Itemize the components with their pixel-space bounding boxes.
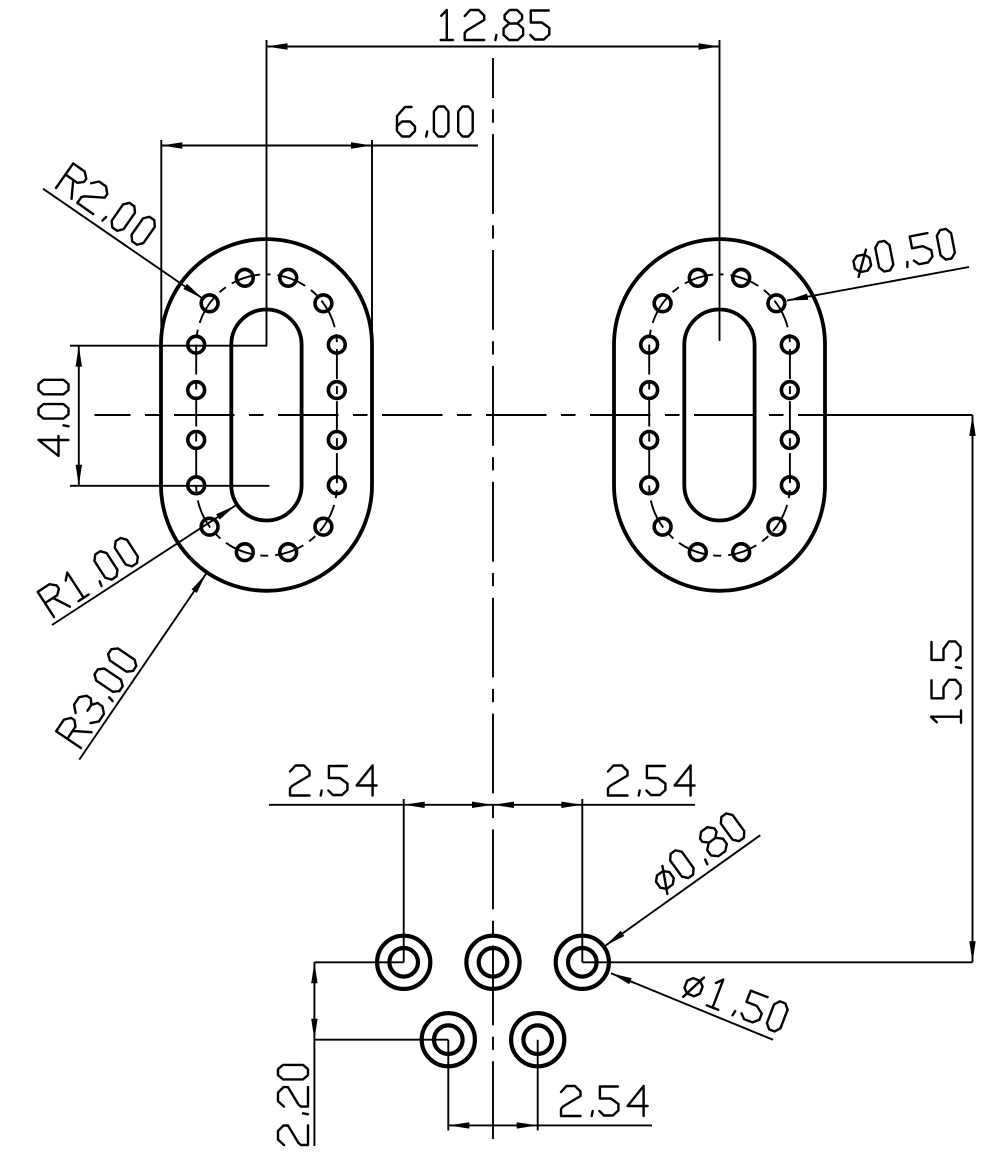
dim 12.85 extension line right (719, 40, 721, 341)
dim 15.5 arrow up (969, 415, 975, 436)
dim text 2.54 top-right (608, 766, 695, 796)
dim 2.54 bottom arrow left (448, 1122, 469, 1128)
label d0.50 (851, 228, 956, 277)
pad A3 outer ring d1.50 (556, 936, 609, 989)
hole right #14 (d0.50) (654, 518, 671, 535)
hole left #8 (d0.50) (328, 477, 345, 494)
pad B1 inner hole d0.80 (434, 1025, 463, 1054)
hole left #9 (d0.50) (236, 269, 253, 286)
dim 6.00 arrow left (161, 142, 182, 148)
pad A2 outer ring d1.50 (466, 936, 519, 989)
hole right #1 (d0.50) (641, 336, 658, 353)
leader R1.00 (52, 506, 236, 626)
dim 6.00 extension line left (160, 140, 162, 344)
hole right #11 (d0.50) (733, 269, 750, 286)
dim 12.85 dimension line (267, 46, 720, 48)
hole right #16 (d0.50) (768, 518, 785, 535)
hole right #2 (d0.50) (641, 382, 658, 399)
dim 15.5 dimension line (972, 415, 974, 962)
dim 2.54 bottom extension line right (537, 1040, 539, 1131)
leader d0.50 arrowhead (786, 294, 808, 304)
horizontal centerline through both stadiums (95, 414, 837, 416)
hole left #6 (d0.50) (328, 382, 345, 399)
pad A2 inner hole d0.80 (479, 948, 508, 977)
label R1.00 (38, 536, 141, 617)
leader R3.00 arrowhead (192, 572, 209, 593)
dim 4.00 extension line top (70, 345, 267, 347)
hole left #15 (d0.50) (315, 295, 332, 312)
dim 15.5 arrow down (969, 941, 975, 962)
bolt path right (R2.00 dashed obround) (649, 274, 790, 555)
hole right #8 (d0.50) (781, 477, 798, 494)
label R2.00 (56, 163, 158, 247)
dim 2.54 bottom arrow right (517, 1122, 538, 1128)
leader d0.50 (787, 267, 969, 301)
dim 2.54 top dimension line (269, 804, 695, 806)
hole right #12 (d0.50) (733, 544, 750, 561)
inner slot right (R1.00 obround 2x6) (684, 310, 754, 521)
pad A1 inner hole d0.80 (389, 948, 418, 977)
dim 2.54 bottom dimension line (448, 1124, 652, 1126)
dim 12.85 extension line left (266, 40, 268, 345)
hole right #13 (d0.50) (654, 295, 671, 312)
dim 2.20 arrow up (311, 962, 317, 983)
hole left #16 (d0.50) (315, 518, 332, 535)
hole left #12 (d0.50) (280, 544, 297, 561)
vertical centerline (492, 58, 494, 1139)
dim 6.00 arrow right (351, 142, 372, 148)
leader R1.00 arrowhead (216, 503, 237, 520)
hole right #7 (d0.50) (781, 432, 798, 449)
dim text 2.54 top-left (290, 766, 377, 796)
hole left #5 (d0.50) (328, 336, 345, 353)
pad B2 inner hole d0.80 (523, 1025, 552, 1054)
dim 2.54 bottom extension line left (447, 1040, 449, 1131)
leader d1.50 arrowhead (610, 970, 632, 984)
hole left #14 (d0.50) (201, 518, 218, 535)
centerline extension to 15.5 dimension (835, 414, 973, 416)
leader d1.50 (611, 973, 773, 1040)
hole left #3 (d0.50) (188, 432, 205, 449)
dim 2.20 arrow down (311, 1019, 317, 1040)
dim text 12.85 (441, 10, 550, 40)
dim 2.54 top extension line right (581, 799, 583, 962)
dim 2.54 top extension line left (403, 799, 405, 962)
dim text 2.20 (278, 1065, 308, 1145)
dim text 4.00 (39, 380, 69, 456)
dim 2.20 stub to pad A1 (314, 961, 403, 963)
hole right #15 (d0.50) (768, 295, 785, 312)
dim 6.00 extension line right (371, 140, 373, 344)
hole left #1 (d0.50) (188, 336, 205, 353)
dim text 6.00 (397, 107, 473, 137)
bolt path left (R2.00 dashed obround) (196, 274, 337, 555)
hole left #2 (d0.50) (188, 382, 205, 399)
hole left #4 (d0.50) (188, 477, 205, 494)
pad B1 outer ring d1.50 (422, 1013, 475, 1066)
pad A3 inner hole d0.80 (568, 948, 597, 977)
hole left #13 (d0.50) (201, 295, 218, 312)
leader R2.00 arrowhead (183, 284, 204, 301)
hole right #5 (d0.50) (781, 336, 798, 353)
dim 2.20 dimension line (313, 962, 315, 1146)
dim 12.85 arrow right (699, 43, 720, 49)
dim 15.5 extension line bottom (582, 961, 972, 963)
dim 4.00 extension line bottom (70, 485, 269, 487)
dim text 15.5 (931, 641, 961, 722)
dim 6.00 dimension line (161, 145, 478, 147)
hole right #6 (d0.50) (781, 382, 798, 399)
dim text 2.54 bottom (561, 1086, 648, 1116)
leader R3.00 (79, 574, 206, 760)
outer stadium left (R3.00 obround 6x10) (161, 239, 372, 591)
label d0.80 (648, 811, 748, 895)
hole left #7 (d0.50) (328, 432, 345, 449)
dim 12.85 arrow left (267, 43, 288, 49)
leader d0.80 (605, 835, 760, 945)
dim 2.54 left arrow outward (404, 802, 425, 808)
dim 2.54 right arrow outward (561, 802, 582, 808)
outer stadium right (R3.00 obround 6x10) (614, 239, 825, 591)
hole left #11 (d0.50) (280, 269, 297, 286)
dim 4.00 arrow up (76, 346, 82, 367)
dim 4.00 arrow down (76, 465, 82, 486)
hole right #9 (d0.50) (689, 269, 706, 286)
dim 2.54 left arrow at centerline (472, 802, 493, 808)
label d1.50 (681, 968, 789, 1034)
label R3.00 (56, 646, 139, 748)
dim 4.00 dimension line (78, 346, 80, 486)
inner slot left (R1.00 obround 2x6) (231, 310, 301, 521)
hole left #10 (d0.50) (236, 544, 253, 561)
dim 2.54 right arrow at centerline (493, 802, 514, 808)
dim 2.20 stub to pad B1 (314, 1039, 448, 1041)
pad B2 outer ring d1.50 (511, 1013, 564, 1066)
hole right #3 (d0.50) (641, 432, 658, 449)
pad A1 outer ring d1.50 (377, 936, 430, 989)
leader R2.00 (43, 189, 202, 299)
leader d0.80 arrowhead (604, 931, 625, 948)
hole right #4 (d0.50) (641, 477, 658, 494)
hole right #10 (d0.50) (689, 544, 706, 561)
